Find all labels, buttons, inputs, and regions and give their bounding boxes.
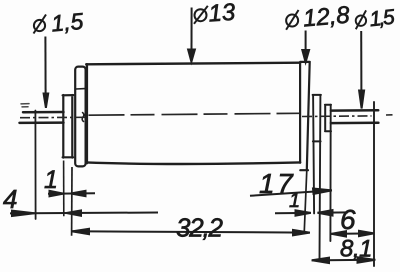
svg-text:1,5: 1,5 xyxy=(50,8,84,37)
left flange disc xyxy=(63,95,74,158)
cylinder body xyxy=(86,64,88,163)
right shaft end line / extension for 6 and 8,1 xyxy=(373,102,375,266)
label dia 12,8 (top right) xyxy=(284,1,351,34)
dimension 8,1 line and arrows xyxy=(312,257,376,263)
extension line flange left edge xyxy=(63,161,65,217)
centerline right xyxy=(302,115,372,118)
collar 2 xyxy=(325,105,331,132)
bearing cap xyxy=(75,67,85,167)
extension of step edge down to 32,2 line xyxy=(304,170,307,233)
extension line x=72 (also for 32,2) xyxy=(71,167,73,236)
stray pencil marks left of shaft xyxy=(21,104,29,107)
svg-text:12,8: 12,8 xyxy=(302,1,352,32)
leader line dia 13 xyxy=(191,8,193,51)
bearing cap inner line xyxy=(76,88,85,90)
svg-text:6: 6 xyxy=(340,204,356,235)
leader line dia 1,5 left xyxy=(44,8,365,109)
centerline through cylinder body xyxy=(89,113,300,115)
dimension 1 (right) line and arrows xyxy=(275,210,348,216)
dimension 4 line and arrows xyxy=(10,210,158,216)
label dia 1,5 (far top right) xyxy=(354,6,396,33)
svg-text:1: 1 xyxy=(289,190,300,212)
label dia 13 (top middle) xyxy=(194,0,237,27)
svg-text:8,1: 8,1 xyxy=(340,236,372,263)
svg-text:1: 1 xyxy=(44,166,58,194)
dimension 17 line and arrow xyxy=(250,189,332,196)
leader line dia 1,5 right xyxy=(360,31,362,90)
centerline stub beyond shaft end xyxy=(386,114,393,116)
right step (dia 12,8) xyxy=(300,62,310,170)
svg-text:32,2: 32,2 xyxy=(176,213,224,243)
dimension 32,2 line and arrows xyxy=(72,229,310,236)
svg-text:4: 4 xyxy=(3,184,17,214)
right shaft xyxy=(331,110,379,123)
centerline left xyxy=(20,113,393,117)
dimension 1 (left) line and arrows xyxy=(48,161,95,236)
leader line dia 12,8 xyxy=(305,31,307,51)
label dia 1,5 (top left) xyxy=(34,8,85,37)
cap inner squiggle xyxy=(82,113,84,122)
left shaft end / extension line for dim 4 xyxy=(34,111,36,220)
collar 1 xyxy=(313,95,321,141)
dimension 6 line and arrows xyxy=(331,231,374,237)
svg-text:13: 13 xyxy=(208,0,237,27)
left shaft xyxy=(20,112,64,123)
